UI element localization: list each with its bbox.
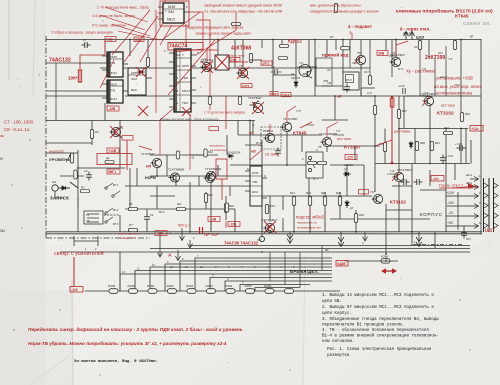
node: scattered tiny labels right-top: [352, 46, 461, 95]
transistor T17: [372, 194, 383, 203]
transistor T12: [299, 65, 312, 79]
diode D3b KD521A: [227, 154, 234, 158]
svg-text:Т11 КТ361Г: Т11 КТ361Г: [283, 117, 298, 121]
ground arrow ShU-1: [180, 228, 185, 241]
svg-text:ЗЫ: ЗЫ: [0, 229, 5, 233]
svg-text:У8: У8: [86, 219, 90, 223]
svg-text:4хКТ368: 4хКТ368: [231, 46, 251, 52]
resistor R11: [177, 207, 186, 210]
node: pin numbers scattered: [85, 5, 481, 251]
resistor chain labels: [108, 284, 272, 288]
svg-text:Переделать синхр. дифкаскад на: Переделать синхр. дифкаскад на классику …: [28, 326, 243, 333]
svg-text:КТ368БМ: КТ368БМ: [297, 66, 309, 69]
wire: power rail arrows to connector: [446, 192, 479, 230]
wire: horizontal bus y232: [46, 231, 482, 233]
note: red underline goriz otkl: [439, 183, 478, 189]
diode D7 KD522B: [343, 172, 351, 176]
svg-text:Т14: Т14: [357, 51, 362, 55]
resistor R6: [129, 207, 138, 210]
capacitor C3: [82, 42, 91, 48]
note: red X near MC12 output: [138, 106, 148, 116]
connector Gn1 ZAPUSK: [52, 182, 78, 191]
svg-text:+ С14: + С14: [446, 154, 454, 158]
resistor R16: [224, 204, 227, 213]
svg-text:С7: С7: [83, 38, 87, 42]
resistor R14b: [208, 97, 211, 105]
svg-text:синхр. с усилителей: синхр. с усилителей: [54, 250, 104, 257]
svg-text:1 =0 долго не было запуска: 1 =0 долго не было запуска: [204, 111, 245, 115]
svg-text:СЛ1З: СЛ1З: [282, 93, 289, 97]
transistor T14: [355, 55, 366, 64]
svg-text:ВГ-1: ВГ-1: [159, 210, 165, 214]
resistor R2 vertical: [74, 170, 77, 179]
box SE crossed spare element: [215, 55, 229, 70]
capacitor C13: [414, 179, 423, 185]
wire: extra mesh density center: [227, 60, 375, 232]
svg-text:NP 5uF: NP 5uF: [204, 232, 219, 237]
svg-text:ШУ1-2: ШУ1-2: [440, 76, 448, 79]
resistor R13: [292, 197, 295, 206]
svg-text:Ш17: Ш17: [485, 228, 495, 233]
svg-text:А: А: [168, 253, 172, 259]
note: red box =ZV: [209, 127, 219, 131]
svg-text:1=0 долго не было, запуск: 1=0 долго не было, запуск: [92, 14, 135, 18]
svg-text:+12v: +12v: [471, 127, 478, 131]
capacitor C10: [344, 84, 350, 93]
svg-text:исходе -1Л: исходе -1Л: [120, 236, 135, 240]
svg-text:74АС00 74АС132: 74АС00 74АС132: [224, 241, 259, 246]
note: red box at x127 top: [122, 136, 133, 141]
svg-text:1. Выводы 14 микросхем МС1...: 1. Выводы 14 микросхем МС1...МС3 подключ…: [322, 294, 434, 298]
svg-text:Т.к. оба сигнала есть инверсны: Т.к. оба сигнала есть инверсные - НЕ-2И-…: [204, 10, 283, 14]
note: red box around 74AC74 label: [168, 43, 203, 51]
svg-text:КЛ: КЛ: [330, 35, 334, 39]
resistor R12: [204, 194, 207, 203]
svg-text:-12В: -12В: [209, 218, 217, 222]
svg-text:R41: R41: [435, 141, 440, 145]
svg-text:определяется временем разряда: определяется временем разряда С ключом: [310, 10, 379, 14]
svg-text:1=сброс в процессе, запуск зап: 1=сброс в процессе, запуск запрещён.: [51, 31, 114, 35]
resistor R27: [318, 161, 327, 164]
svg-text:Эл.монтаж выполнен, Ялд. Ф 1В4: Эл.монтаж выполнен, Ялд. Ф 1В470мп.: [74, 360, 158, 364]
svg-text:0,47: 0,47: [367, 92, 372, 95]
svg-text:КТ350ПМ: КТ350ПМ: [333, 134, 345, 137]
wire: corpus dash-dot line: [413, 244, 462, 246]
resistor R39: [415, 142, 418, 151]
svg-text:КТ361Г: КТ361Г: [306, 124, 315, 127]
wire: mid horizontals: [46, 68, 470, 219]
IC MC22 flip-flop lower: [245, 166, 267, 206]
transistor T18: [393, 172, 404, 181]
connector Gn2: [259, 234, 264, 242]
svg-text:10К*: 10К*: [68, 76, 78, 81]
svg-text:R16: R16: [229, 204, 234, 208]
resistor R5: [146, 58, 149, 67]
svg-text:МЕ21: МЕ21: [167, 18, 176, 22]
resistor R28: [338, 197, 341, 206]
wire: horizontal bus y252: [60, 251, 470, 253]
node: staircase pin number row: [170, 265, 295, 269]
svg-text:12: 12: [170, 265, 173, 269]
svg-text:ВГ-9: ВГ-9: [398, 68, 404, 71]
note: red X over T6: [237, 67, 249, 79]
wire: R368 link: [345, 260, 398, 262]
wire: extra mesh density left-mid: [46, 121, 218, 247]
svg-text:ист.тока: ист.тока: [441, 104, 456, 108]
capacitor C9: [271, 69, 282, 75]
transistor T13: [321, 137, 332, 146]
svg-text:Ш19: Ш19: [416, 36, 424, 40]
wire: red 10K pull line: [80, 42, 105, 83]
wire: staircase comb to time/div divider: [120, 258, 332, 291]
transistor T11: [281, 122, 292, 131]
resistor R37: [397, 110, 400, 119]
transistor T6: [237, 68, 248, 77]
capacitor C4: [144, 214, 150, 223]
svg-text:ном сигналом.: ном сигналом.: [322, 340, 354, 344]
svg-text:5МГ1: 5МГ1: [108, 170, 116, 174]
transistor T3: [169, 173, 180, 182]
svg-text:9 - гориз откл.: 9 - гориз откл.: [400, 27, 431, 32]
svg-text:м5: м5: [337, 95, 342, 99]
svg-text:R11: R11: [177, 202, 182, 206]
resistor R20: [418, 41, 421, 50]
note: red X over T1: [110, 126, 122, 138]
wire: red web top-left diagonals: [100, 0, 248, 113]
svg-text:Однако достигло макс, сброс в: Однако достигло макс, сброс в процессе: [160, 117, 219, 121]
svg-text:Д3: Д3: [349, 207, 354, 210]
svg-text:R30: R30: [359, 213, 364, 217]
svg-text:свободный элемент вместо диодн: свободный элемент вместо диодной смеси 2…: [204, 4, 283, 8]
svg-text:R366: R366: [264, 284, 272, 288]
IC pin strip MC11: [108, 53, 111, 77]
resistor R9: [280, 44, 289, 47]
svg-text:u5: u5: [327, 68, 331, 72]
capacitor C17: [461, 230, 467, 239]
svg-text:С10: С10: [352, 62, 357, 65]
svg-text:К155: К155: [168, 5, 175, 9]
svg-text:КД512: КД512: [288, 39, 302, 44]
connector Sh17 pin arrows: [484, 183, 498, 228]
note: red double arrow: [381, 268, 397, 274]
svg-text:-12v: -12v: [432, 177, 439, 181]
svg-text:Т6: Т6: [239, 64, 243, 68]
svg-text:цепи 5В.: цепи 5В.: [322, 300, 342, 304]
transistor T7: [264, 133, 275, 142]
ground arrow bus Y1: [287, 232, 293, 244]
svg-text:КТ361Г: КТ361Г: [387, 173, 396, 176]
capacitor C2: [86, 172, 92, 181]
svg-text:переделать: переделать: [209, 144, 226, 148]
diode D1: [137, 70, 145, 74]
svg-text:С8 - 0,1u..1u: С8 - 0,1u..1u: [4, 127, 30, 132]
svg-text:ВРЕМЯ/ДЕЛ.: ВРЕМЯ/ДЕЛ.: [290, 269, 319, 274]
resistor R29 horizontal: [341, 47, 350, 50]
wire: horizontal bus y234: [46, 233, 482, 235]
svg-text:Гориз. откл.?: Гориз. откл.?: [439, 183, 464, 188]
svg-text:КТ361: КТ361: [200, 61, 208, 64]
diode D3 KD521A: [345, 200, 349, 208]
resistor R359: [129, 289, 138, 294]
svg-text:-12В: -12В: [108, 107, 116, 111]
svg-text:R19: R19: [270, 204, 275, 208]
wire: horizontal y96 segments: [125, 95, 481, 97]
svg-text:Т3 КТ368БМ: Т3 КТ368БМ: [205, 167, 222, 171]
ground arrow bus Y4: [158, 249, 163, 258]
label u5 box: [316, 58, 332, 86]
svg-text:R12: R12: [208, 150, 213, 154]
svg-text:1 =0 пила достигла макс., сбро: 1 =0 пила достигла макс., сброс: [97, 6, 149, 10]
note: red X over T9: [252, 102, 264, 114]
svg-text:переделать на: переделать на: [297, 221, 317, 225]
IC MC12 gate B (74AC132): [102, 80, 128, 103]
svg-text:R365: R365: [245, 284, 253, 288]
svg-text:ТЛ1: ТЛ1: [110, 89, 116, 93]
svg-text:ЗЛГЗ: ЗЛГЗ: [262, 62, 269, 66]
svg-text:-12У: -12У: [71, 288, 79, 292]
svg-text:R6: R6: [129, 202, 133, 206]
wire: left frame dash-dot border: [45, 36, 47, 238]
svg-text:R4: R4: [106, 157, 110, 161]
svg-text:Д3 КД521А: Д3 КД521А: [226, 151, 241, 155]
svg-text:Т9 КТ361Г: Т9 КТ361Г: [248, 96, 262, 100]
IC pin strip MC12: [108, 81, 111, 103]
capacitor C13: [403, 88, 405, 94]
svg-text:задержка следующего авто запус: задержка следующего авто запуска: [187, 26, 243, 30]
svg-text:+12В: +12В: [108, 149, 116, 153]
transistor T16: [423, 96, 434, 105]
svg-text:R39: R39: [420, 141, 425, 145]
svg-text:мин. длительность сброса пилы: мин. длительность сброса пилы: [310, 4, 361, 8]
svg-text:ТМ2: ТМ2: [182, 101, 188, 105]
transistor T5b: [204, 173, 215, 182]
wire: right-top extra verticals: [350, 46, 446, 96]
note: red box around R4: [97, 154, 132, 165]
switch V1-6 box around T7: [261, 127, 281, 149]
svg-text:R361: R361: [167, 284, 175, 288]
svg-text:В1-4 в режиме внешней синхрони: В1-4 в режиме внешней синхронизации теле…: [322, 334, 439, 339]
resistor R34: [373, 106, 376, 115]
svg-text:Т15: Т15: [448, 58, 453, 61]
svg-text:цепи Корпус.: цепи Корпус.: [322, 312, 352, 316]
svg-text:74АС74: 74АС74: [169, 44, 187, 50]
svg-text:R33: R33: [364, 71, 369, 74]
IC MC11 gate A (74AC132): [102, 52, 128, 77]
wire: red drop to -12U box: [73, 257, 75, 286]
node: scattered tiny labels mid: [200, 52, 430, 210]
svg-text:ЛА3: ЛА3: [130, 77, 137, 81]
svg-text:R364: R364: [225, 284, 233, 288]
svg-text:+12V: +12V: [446, 191, 455, 195]
resistor R14: [308, 197, 311, 206]
svg-text:УРОВЕНЬ: УРОВЕНЬ: [49, 157, 71, 162]
svg-text:НОРМ: НОРМ: [145, 176, 156, 180]
svg-text:Гн: Гн: [0, 157, 4, 161]
ground arrow ShU7-1: [188, 240, 193, 248]
resistor red rastyazhka trim: [390, 98, 394, 107]
capacitor labels: [83, 38, 471, 241]
svg-text:КД522Б: КД522Б: [291, 77, 300, 80]
svg-text:К155: К155: [110, 55, 117, 59]
resistor 10K red: [78, 70, 81, 82]
wire: red vertical rastyazhka: [391, 97, 393, 163]
resistor R362: [187, 289, 196, 294]
svg-text:Рис. 1. Схема электрическая пр: Рис. 1. Схема электрическая принципиальн…: [327, 348, 432, 352]
resistor R366: [265, 289, 274, 294]
IC pin strip MC21: [175, 50, 178, 112]
svg-text:Норм-ТВ убрать. Можно попробов: Норм-ТВ убрать. Можно попробовать: ускор…: [28, 340, 227, 346]
resistor R36: [383, 143, 386, 152]
note: red boxed labels: [70, 37, 483, 293]
svg-text:R12: R12: [208, 193, 213, 197]
resistor R3: [90, 130, 93, 139]
svg-text:м5: м5: [251, 150, 256, 154]
svg-text:R23: R23: [438, 52, 443, 55]
diode D4 KD522B: [294, 80, 298, 88]
note: red boxed labels mid-top cluster: [230, 58, 291, 98]
svg-text:В4: В4: [325, 248, 329, 252]
svg-text:С2: С2: [84, 169, 88, 173]
svg-text:R2: R2: [81, 186, 85, 190]
svg-text:Ш1-2: Ш1-2: [466, 174, 473, 177]
svg-text:С17: С17: [466, 237, 471, 241]
svg-text:можно сделать перекл. ждущ./ав: можно сделать перекл. ждущ./авто: [196, 32, 251, 36]
svg-text:R21: R21: [414, 46, 419, 49]
svg-text:СЛГЗ: СЛГЗ: [242, 84, 249, 88]
svg-text:зы: зы: [0, 134, 5, 138]
svg-text:Т12: Т12: [299, 62, 304, 65]
svg-text:R368: R368: [381, 255, 389, 259]
wire: red vertical x226: [225, 96, 227, 129]
note: red box -12v top of R30: [359, 190, 369, 194]
capacitor C12: [401, 179, 410, 185]
resistor R33: [368, 76, 371, 85]
transistor T19: [390, 57, 401, 66]
note: red box around T3 collector: [216, 159, 227, 200]
resistor labels: [95, 109, 470, 227]
IC MC21 flip-flop 74AC74: [169, 49, 196, 112]
wire: black vertical to rastyazhka: [391, 40, 393, 78]
svg-text:КТ645: КТ645: [455, 14, 469, 19]
svg-text:R43: R43: [465, 112, 470, 116]
svg-text:~3: ~3: [190, 156, 194, 160]
svg-text:R26: R26: [321, 191, 326, 195]
note: red X over MC21 output: [182, 107, 191, 116]
switch VG-1 contact ladder: [105, 183, 120, 223]
transistor T4: [201, 62, 212, 71]
svg-text:R28: R28: [336, 191, 341, 195]
resistor R4: [105, 160, 114, 163]
ground arrow bus Y5: [363, 232, 368, 241]
svg-text:КТ3107: КТ3107: [344, 145, 361, 151]
svg-text:К155: К155: [252, 171, 259, 175]
resistor R364: [226, 289, 235, 294]
svg-text:КОРПУС: КОРПУС: [420, 212, 443, 217]
svg-text:ТМ2: ТМ2: [252, 180, 258, 184]
switch V1-7: [306, 152, 323, 178]
svg-text:переключателя В1 проводом узел: переключателя В1 проводом узелом.: [322, 324, 404, 328]
svg-text:ист.тока: ист.тока: [337, 137, 352, 141]
resistor R360: [148, 289, 157, 294]
wire: stubs into left DIP pins: [46, 63, 102, 121]
potentiometer R1 UROVEN: [66, 153, 74, 163]
wire: extra bus drop arrows: [211, 219, 310, 230]
svg-text:4. ТВ - обозначение положения: 4. ТВ - обозначение положения переключат…: [322, 328, 429, 333]
resistor R19: [265, 205, 268, 214]
svg-text:+ С16: + С16: [455, 142, 463, 146]
svg-text:m5: m5: [327, 81, 331, 85]
svg-text:Т1П: Т1П: [296, 110, 301, 113]
svg-text:прямой код: прямой код: [322, 52, 348, 58]
node: power rail labels: [446, 191, 455, 225]
wire: bottom resistor chain line: [85, 290, 340, 292]
ground arrow A-node: [176, 250, 181, 261]
note: red X over SE box: [215, 55, 229, 70]
svg-text:С1В: С1В: [106, 38, 113, 42]
svg-text:+С13: +С13: [398, 84, 405, 88]
transistor T9: [250, 101, 263, 113]
capacitor C16: [457, 145, 466, 151]
node: extra junction dots: [261, 95, 413, 253]
svg-text:R7: R7: [129, 223, 133, 227]
wire: horizontal bus y248: [150, 248, 470, 250]
resistor R18: [225, 203, 228, 212]
svg-text:-12V: -12V: [447, 201, 455, 205]
svg-text:УЛБ: УЛБ: [231, 58, 237, 62]
wire: vertical drops from top bus: [105, 40, 461, 113]
switch U1 U8 selector: [84, 211, 103, 224]
resistor R358: [109, 289, 118, 294]
wire: red misc middle: [160, 33, 392, 228]
svg-text:КД522Б: КД522Б: [344, 164, 353, 167]
svg-text:ВГ-3: ВГ-3: [113, 223, 119, 226]
wire: staircase pin ticks: [122, 254, 244, 285]
svg-text:50Гц ?: 50Гц ?: [178, 223, 191, 228]
resistor R44: [453, 41, 456, 50]
resistor R43: [460, 113, 463, 122]
svg-text:НП: НП: [146, 165, 152, 169]
svg-text:R363: R363: [206, 284, 214, 288]
svg-text:С7 - 100..1000: С7 - 100..1000: [4, 120, 34, 125]
svg-text:2. Выводы 07 микросхем МС1...М: 2. Выводы 07 микросхем МС1...МС3 подключ…: [322, 306, 434, 310]
svg-text:R13: R13: [290, 191, 295, 195]
svg-text:74АС132: 74АС132: [49, 58, 71, 64]
note: red X over D1: [136, 67, 146, 77]
wire: staircase right verticals: [270, 246, 322, 288]
svg-text:?: ?: [349, 31, 352, 36]
svg-text:МС21: МС21: [182, 89, 190, 93]
switch VG-8 box: [343, 72, 359, 90]
IC MC13 gate C: [128, 68, 152, 95]
note: red X over T4: [201, 61, 213, 73]
svg-text:ВГ-7: ВГ-7: [313, 178, 319, 181]
svg-text:Д7: Д7: [343, 168, 348, 171]
svg-text:ключевые попробовать BS170 (2,: ключевые попробовать BS170 (2,5V on): [396, 8, 493, 15]
transistor T5: [205, 171, 216, 180]
resistor R363: [207, 289, 216, 294]
svg-text:Т18 КТ361Г: Т18 КТ361Г: [397, 168, 413, 172]
wire: red T19 link: [396, 41, 408, 57]
resistor R367: [285, 289, 294, 294]
connector Sh19 horiz deflection output: [404, 32, 415, 40]
svg-text:С8 1мкФ: С8 1мкФ: [265, 153, 279, 157]
svg-text:ПВ: ПВ: [318, 146, 322, 149]
svg-text:ШГГ-2: ШГГ-2: [403, 32, 411, 35]
svg-text:u5: u5: [249, 131, 253, 135]
svg-text:КТ361Г: КТ361Г: [389, 55, 398, 58]
svg-text:Гн1: Гн1: [52, 180, 57, 184]
svg-text:К155: К155: [131, 71, 138, 75]
